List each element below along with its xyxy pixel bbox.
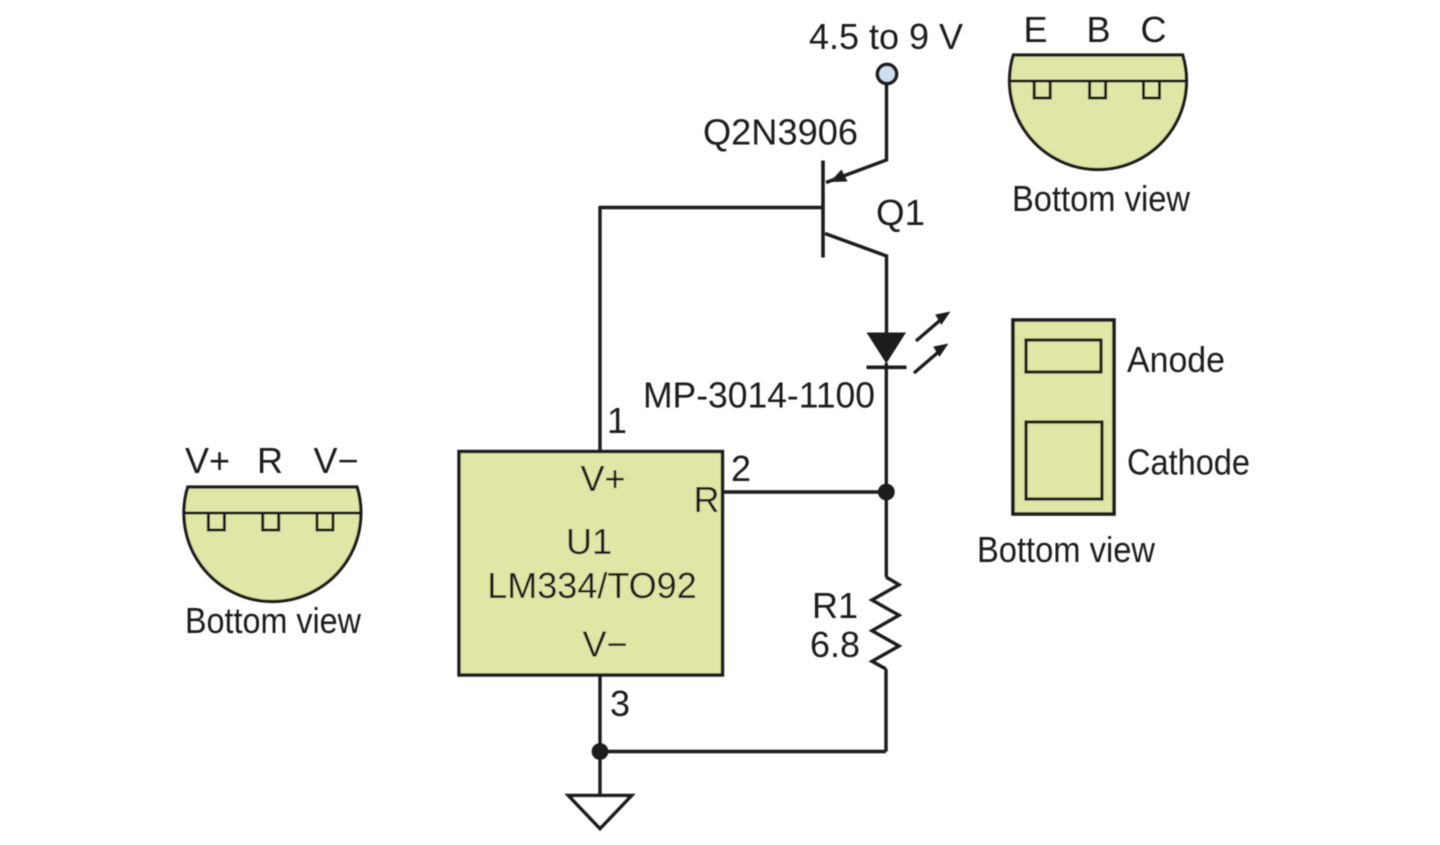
svg-text:4.5 to 9 V: 4.5 to 9 V: [809, 16, 963, 57]
svg-text:Cathode: Cathode: [1127, 442, 1250, 483]
svg-text:6.8: 6.8: [810, 624, 860, 665]
svg-text:V+: V+: [580, 458, 625, 499]
svg-text:MP-3014-1100: MP-3014-1100: [643, 375, 875, 416]
svg-text:R: R: [257, 440, 283, 481]
svg-text:Bottom view: Bottom view: [185, 600, 362, 641]
svg-text:2: 2: [731, 448, 751, 489]
svg-text:Q1: Q1: [876, 192, 925, 233]
svg-text:C: C: [1141, 9, 1167, 50]
svg-text:LM334/TO92: LM334/TO92: [487, 565, 696, 606]
svg-text:R: R: [694, 479, 720, 520]
svg-text:Bottom view: Bottom view: [1012, 178, 1191, 219]
svg-text:V+: V+: [185, 440, 230, 481]
svg-text:V−: V−: [582, 624, 627, 665]
svg-text:R1: R1: [812, 585, 858, 626]
svg-text:B: B: [1086, 9, 1110, 50]
svg-text:U1: U1: [566, 521, 612, 562]
svg-text:V−: V−: [313, 440, 358, 481]
svg-text:3: 3: [610, 683, 630, 724]
svg-text:E: E: [1023, 9, 1047, 50]
svg-text:1: 1: [607, 400, 627, 441]
svg-text:Anode: Anode: [1127, 339, 1225, 380]
svg-text:Q2N3906: Q2N3906: [703, 112, 858, 153]
svg-text:Bottom view: Bottom view: [977, 529, 1156, 570]
